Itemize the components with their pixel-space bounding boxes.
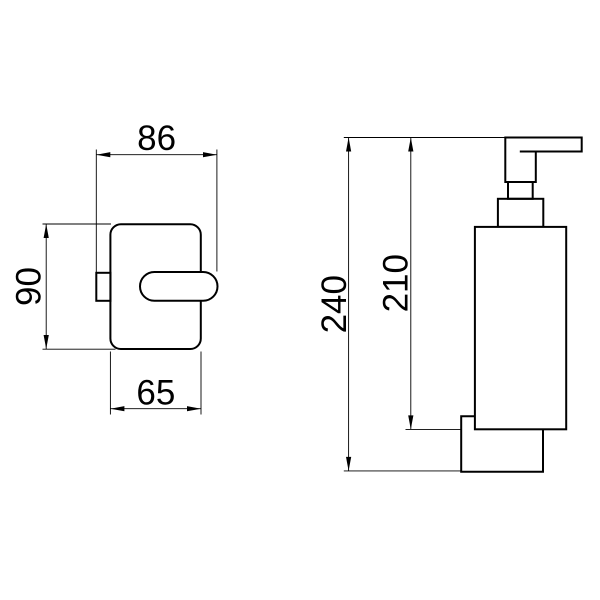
pump head and spout (side view) <box>505 138 581 183</box>
dim 90 dimension line <box>45 224 47 349</box>
dim 65 extension line left <box>109 352 111 415</box>
dim 65 arrow right <box>187 406 201 411</box>
dim 65 extension line right <box>200 352 202 415</box>
dim 65 arrow left <box>110 406 124 411</box>
svg-text:86: 86 <box>137 119 176 158</box>
svg-text:90: 90 <box>10 267 49 306</box>
dim 240 arrow bottom <box>346 457 351 471</box>
wall plate (front view) <box>110 224 200 349</box>
dim 210 arrow bottom <box>408 415 413 429</box>
dim 240 dimension line <box>348 138 350 471</box>
svg-text:240: 240 <box>315 275 354 333</box>
bottle body <box>475 227 566 429</box>
dim 240 arrow top <box>346 138 351 152</box>
dim 65 dimension line <box>110 408 201 410</box>
dim 210 dimension line <box>410 138 412 430</box>
dim 210 bottom extension line <box>406 428 462 430</box>
dim 90 extension line bottom <box>43 348 116 350</box>
dim 86 extension line right <box>216 150 218 272</box>
dim 86 extension line left <box>95 150 97 273</box>
svg-text:65: 65 <box>136 373 175 412</box>
dim 90 arrow top <box>44 224 49 238</box>
wall holder ring <box>461 416 543 472</box>
dim 86 arrow left <box>96 152 110 157</box>
dim 210 arrow top <box>408 138 413 152</box>
dim 86 arrow right <box>203 152 217 157</box>
pump lever (pill) <box>140 272 218 301</box>
svg-text:210: 210 <box>377 254 416 312</box>
pump collar <box>498 199 543 227</box>
dim 240 bottom extension line <box>344 470 461 472</box>
dim 86 dimension line <box>96 154 217 156</box>
pump neck <box>508 182 533 199</box>
dim 90 extension line top <box>43 223 112 225</box>
dim top extension line (shared 240/210) <box>344 137 506 139</box>
dim 90 arrow bottom <box>44 335 49 349</box>
mounting tab <box>96 273 110 301</box>
